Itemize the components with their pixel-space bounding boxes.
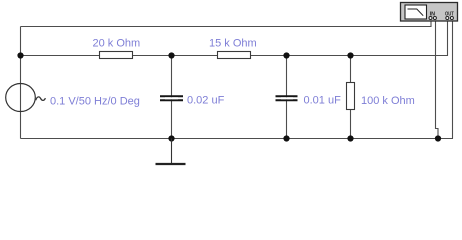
oscilloscope U1 OUT- terminal: [450, 17, 453, 20]
svg-text:100 k Ohm: 100 k Ohm: [361, 95, 415, 107]
node junction dot row at R3 top: [347, 52, 353, 58]
oscilloscope U1 screen: [405, 5, 427, 19]
wire top horizontal from source to scope IN+: [21, 20, 432, 27]
wire scope IN- down with jog: [436, 20, 439, 139]
oscilloscope U1 response curve: [408, 9, 424, 16]
node junction dot left row: [17, 52, 23, 58]
capacitor C1 top plate: [160, 95, 183, 97]
node junction dot bottom at C2: [283, 135, 289, 141]
capacitor C2 top plate: [276, 95, 298, 97]
capacitor C2 bottom plate: [276, 99, 298, 101]
wire middle row horizontal to scope OUT+: [21, 20, 448, 56]
node junction dot bottom at scope IN-: [435, 135, 441, 141]
svg-text:0.02 uF: 0.02 uF: [187, 94, 225, 106]
svg-text:0.1 V/50 Hz/0 Deg: 0.1 V/50 Hz/0 Deg: [50, 95, 140, 107]
wire left vertical through source: [20, 27, 22, 139]
node junction dot bottom at R3: [347, 135, 353, 141]
node junction dot row at C1: [168, 52, 174, 58]
ground stem: [171, 139, 173, 164]
wire resistor R3 branch vertical: [350, 56, 352, 139]
resistor R3 body vertical: [347, 83, 355, 110]
capacitor C1 bottom plate: [160, 99, 183, 101]
wire capacitor C2 branch vertical: [286, 56, 288, 139]
AC source V1 tilde symbol: [36, 97, 46, 100]
svg-text:0.01 uF: 0.01 uF: [304, 94, 342, 106]
resistor R2 body: [218, 52, 251, 59]
node junction dot bottom at C1/ground: [168, 135, 174, 141]
node junction dot row at C2: [283, 52, 289, 58]
svg-text:15 k Ohm: 15 k Ohm: [209, 38, 257, 50]
wire scope OUT- down to ground rail: [452, 20, 455, 139]
capacitor C2 plate gap mask: [281, 97, 293, 99]
svg-text:20 k Ohm: 20 k Ohm: [93, 38, 141, 50]
wire capacitor C1 branch vertical: [171, 56, 173, 139]
AC source V1 circle: [6, 84, 36, 112]
oscilloscope U1 IN+ terminal: [429, 17, 432, 20]
oscilloscope U1 IN- terminal: [433, 17, 436, 20]
wire bottom horizontal ground rail: [21, 138, 454, 140]
oscilloscope U1 body: [401, 3, 458, 22]
ground bar: [156, 163, 186, 165]
oscilloscope U1 OUT+ terminal: [446, 17, 449, 20]
resistor R1 body: [100, 52, 133, 59]
capacitor C1 plate gap mask: [165, 97, 178, 99]
